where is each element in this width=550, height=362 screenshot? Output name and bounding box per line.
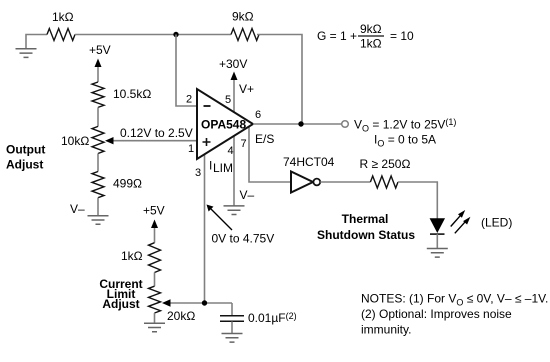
LED D1 [430, 219, 444, 232]
svg-text:9kΩ: 9kΩ [232, 10, 254, 24]
svg-text:immunity.: immunity. [361, 323, 411, 337]
pin 3 ILIM line down to current-limit junction [204, 152, 206, 303]
svg-text:4: 4 [228, 145, 234, 157]
ground GND5 below P2 [144, 323, 165, 332]
svg-text:1kΩ: 1kΩ [360, 37, 382, 51]
resistor R6 1kOhm vertical [149, 243, 161, 273]
svg-text:7: 7 [241, 138, 247, 150]
pin 5 V+ supply line with +30V arrow [233, 79, 235, 114]
potentiometer P1 10kOhm vertical [92, 126, 104, 153]
svg-text:LIM: LIM [213, 161, 233, 175]
svg-text:E/S: E/S [255, 132, 274, 146]
wire: op-amp output to load circle [253, 123, 342, 125]
wire: R5 to LED anode [398, 182, 437, 219]
svg-text:V+: V+ [239, 82, 254, 96]
potentiometer P2 20kOhm vertical [149, 286, 161, 313]
svg-text:(2) Optional: Improves noise: (2) Optional: Improves noise [361, 307, 512, 321]
svg-text:10kΩ: 10kΩ [61, 134, 89, 148]
wire: top-left ground stub to 1k resistor [26, 35, 47, 49]
svg-text:+5V: +5V [143, 204, 165, 218]
op-amp body [197, 89, 253, 159]
wire: R1 to summing junction [75, 34, 231, 36]
node: feedback junction dot [173, 32, 178, 37]
svg-text:74HCT04: 74HCT04 [283, 155, 335, 169]
node: ILIM junction dot [202, 300, 207, 305]
node: output junction dot [298, 121, 303, 126]
pin 7 E/S line to inverter input [249, 125, 291, 182]
ground GND3 op-amp pin 4 [224, 206, 245, 215]
wiper wire P1 to op-amp pin 1 [112, 140, 197, 142]
resistor R5 >=250Ohm horizontal [370, 176, 398, 188]
svg-text:2: 2 [186, 94, 192, 106]
svg-text:1kΩ: 1kΩ [121, 249, 143, 263]
svg-text:V–: V– [240, 188, 255, 202]
wire: R6 to pot P2 [154, 273, 156, 287]
svg-text:0.12V to 2.5V: 0.12V to 2.5V [120, 126, 193, 140]
plus input symbol [203, 138, 211, 146]
svg-text:V–: V– [70, 202, 85, 216]
svg-text:G = 1 +: G = 1 + [317, 29, 357, 43]
wire: junction down to op-amp pin 2 [176, 35, 197, 107]
svg-text:Adjust: Adjust [102, 297, 139, 311]
ground GND1 top-left [16, 49, 37, 58]
svg-text:= 10: = 10 [390, 29, 414, 43]
svg-text:+5V: +5V [89, 43, 111, 57]
svg-text:3: 3 [195, 167, 201, 179]
resistor R4 499Ohm vertical [92, 172, 104, 198]
ground GND6 below C1 [222, 334, 243, 343]
wire: P2 bottom to ground [154, 313, 156, 323]
svg-text:VO = 1.2V to 25V(1): VO = 1.2V to 25V(1) [354, 117, 456, 134]
svg-text:6: 6 [255, 109, 261, 121]
inverter U2 74HCT04 [291, 172, 313, 193]
svg-text:I: I [209, 159, 212, 173]
ground GND4 below LED [427, 249, 448, 258]
output terminal open circle [342, 121, 349, 128]
resistor R3 10.5kOhm vertical [92, 82, 104, 107]
svg-text:(LED): (LED) [481, 216, 512, 230]
svg-text:9kΩ: 9kΩ [360, 22, 382, 36]
wiper wire P2 to junction and capacitor [169, 302, 232, 304]
wire: R2 right to feedback corner down to output node [257, 35, 302, 125]
svg-text:+30V: +30V [219, 57, 247, 71]
minus input symbol [204, 105, 211, 107]
svg-text:499Ω: 499Ω [113, 177, 142, 191]
ground GND2 below R4 [88, 216, 109, 225]
annotation arrow 0V to 4.75V [211, 209, 232, 230]
svg-text:NOTES: (1) For VO ≤ 0V, V– ≤ –: NOTES: (1) For VO ≤ 0V, V– ≤ –1V. [361, 292, 548, 308]
resistor R1 1kOhm horizontal [47, 29, 75, 41]
wire: R3 to pot P1 [97, 107, 99, 126]
svg-text:5: 5 [225, 94, 231, 106]
wire: P1 to R4 [97, 154, 99, 172]
resistor R2 9kOhm horizontal [231, 29, 259, 41]
svg-text:20kΩ: 20kΩ [167, 309, 195, 323]
op-amp U1 OPA548 triangle [186, 57, 291, 303]
svg-text:Thermal: Thermal [342, 212, 389, 226]
wire: inverter output to R5 [320, 181, 370, 183]
svg-text:Shutdown Status: Shutdown Status [317, 228, 415, 242]
svg-text:1kΩ: 1kΩ [52, 10, 74, 24]
svg-text:Adjust: Adjust [6, 158, 43, 172]
capacitor C1 0.01uF [231, 303, 233, 315]
pin 4 line to ground [233, 134, 235, 206]
svg-text:OPA548: OPA548 [201, 118, 246, 132]
svg-text:R ≥ 250Ω: R ≥ 250Ω [360, 157, 411, 171]
LED emission arrows [451, 216, 461, 227]
svg-text:10.5kΩ: 10.5kΩ [113, 87, 151, 101]
svg-text:Output: Output [6, 143, 45, 157]
svg-text:0V to 4.75V: 0V to 4.75V [212, 232, 275, 246]
svg-text:1: 1 [188, 143, 194, 155]
wire: R4 down to ground [97, 198, 99, 216]
